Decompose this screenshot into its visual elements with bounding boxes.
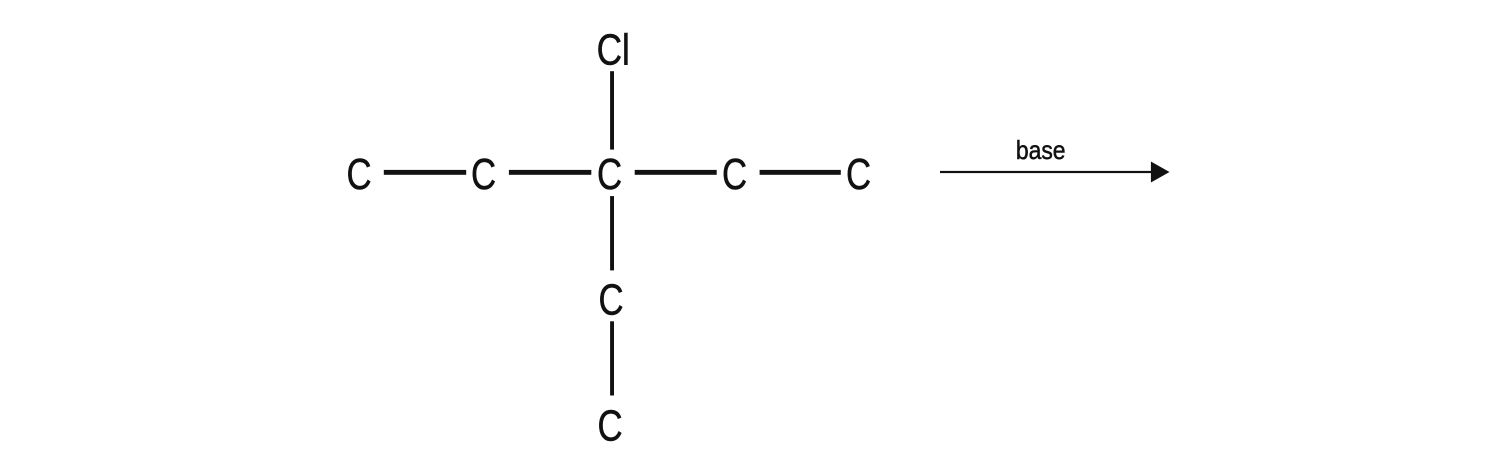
svg-text:C: C <box>346 150 371 199</box>
svg-text:C: C <box>597 402 622 451</box>
svg-text:C: C <box>598 276 623 325</box>
svg-text:C: C <box>846 150 871 199</box>
bond C6-C7 (vertical) <box>610 321 614 395</box>
bond C3-C6 (vertical) <box>610 196 614 270</box>
svg-text:C: C <box>597 150 622 199</box>
bond C2-C3 <box>509 170 591 175</box>
svg-text:C: C <box>722 150 747 199</box>
bond C4-C5 <box>760 170 841 175</box>
reaction arrow head <box>1151 162 1170 183</box>
reaction arrow shaft <box>940 171 1154 173</box>
svg-text:C: C <box>471 150 496 199</box>
bond C3-Cl (vertical) <box>610 71 614 149</box>
svg-text:Cl: Cl <box>597 26 630 74</box>
bond C1-C2 <box>384 170 466 175</box>
bond C3-C4 <box>635 170 717 175</box>
svg-text:base: base <box>1016 137 1066 165</box>
